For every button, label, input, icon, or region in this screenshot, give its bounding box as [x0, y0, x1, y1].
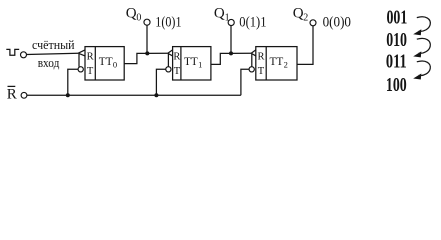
svg-text:0(1)1: 0(1)1	[239, 14, 266, 30]
wire: R bus	[27, 94, 241, 96]
junction dot on R bus at TT1	[154, 93, 158, 97]
junction dot node Q0	[145, 51, 149, 55]
terminal Q2 circle	[310, 20, 316, 26]
wire: R-bus branch to TT2 T bubble	[241, 69, 249, 95]
TT2 T-input inversion bubble	[249, 67, 254, 72]
svg-text:1(0)1: 1(0)1	[155, 14, 181, 30]
wire: TT1 output stub and riser	[211, 53, 231, 64]
transition arrow 001 to 010	[413, 17, 430, 35]
wire: TT0 vertex down to T bubble	[78, 53, 80, 67]
terminal Q1 circle	[228, 19, 234, 25]
wire: TT2 vertex down to T bubble	[251, 53, 253, 67]
svg-text:011: 011	[386, 50, 407, 72]
flip-flop TT1 box	[173, 47, 211, 80]
wire: count input to TT0	[27, 53, 79, 54]
svg-text:вход: вход	[38, 55, 60, 70]
svg-text:Q: Q	[214, 6, 225, 22]
svg-text:R: R	[173, 52, 180, 63]
svg-text:010: 010	[386, 29, 407, 51]
svg-text:R: R	[7, 86, 17, 102]
svg-text:0(0)0: 0(0)0	[323, 14, 351, 30]
transition arrow 010 to 011	[413, 38, 430, 57]
wire: Q1 riser to terminal	[230, 26, 232, 54]
TT0 T-input inversion bubble	[78, 67, 83, 72]
wire: R-bus branch to TT0 T bubble	[68, 69, 78, 95]
junction dot on R bus at TT0	[66, 93, 70, 97]
svg-text:T: T	[258, 66, 265, 77]
svg-text:1: 1	[198, 60, 202, 70]
junction dot node Q1	[229, 51, 233, 55]
R-bar input terminal circle	[21, 92, 27, 98]
svg-text:Q: Q	[293, 6, 304, 22]
svg-text:R: R	[87, 52, 94, 63]
svg-text:T: T	[87, 66, 94, 77]
TT0 inverse dynamic input triangle	[78, 50, 85, 56]
TT1 inverse dynamic input triangle	[168, 50, 173, 56]
svg-text:0: 0	[136, 13, 141, 24]
wire: TT2 output stub and riser to Q2	[297, 26, 313, 65]
terminal Q0 circle	[144, 19, 150, 25]
transition arrow 011 to 100	[413, 61, 430, 79]
svg-text:TT: TT	[270, 54, 284, 68]
svg-text:100: 100	[386, 74, 407, 96]
wire: node Q0 run to TT1	[147, 52, 168, 54]
svg-text:0: 0	[113, 60, 117, 70]
svg-text:R: R	[257, 52, 264, 63]
svg-text:счётный: счётный	[32, 37, 75, 52]
svg-text:TT: TT	[99, 54, 113, 68]
wire: TT0 output stub and riser	[124, 53, 147, 63]
TT2 inverse dynamic input triangle	[251, 50, 256, 56]
input pulse symbol	[6, 49, 19, 55]
svg-text:2: 2	[303, 13, 308, 24]
svg-text:2: 2	[284, 60, 288, 70]
svg-text:TT: TT	[184, 54, 198, 68]
wire: TT1 vertex down to T bubble	[167, 53, 169, 67]
TT1 T-input inversion bubble	[166, 67, 171, 72]
svg-text:001: 001	[387, 6, 408, 28]
wire: Q0 riser to terminal	[146, 25, 148, 53]
flip-flop TT2 box	[256, 47, 297, 80]
svg-text:1: 1	[225, 13, 230, 24]
svg-text:Q: Q	[126, 6, 137, 22]
wire: node Q1 run to TT2	[231, 52, 251, 54]
input terminal circle	[21, 52, 27, 58]
wire: R-bus branch to TT1 T bubble	[156, 69, 165, 95]
svg-text:T: T	[174, 66, 181, 77]
flip-flop TT0 box	[85, 47, 124, 80]
